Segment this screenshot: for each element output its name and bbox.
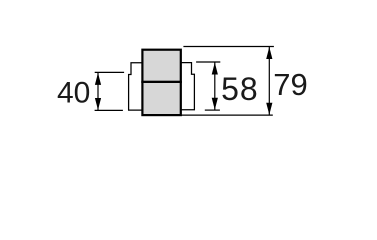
arrow up 58 xyxy=(212,63,218,75)
body upper block xyxy=(142,50,180,82)
extension line top of 58 xyxy=(196,61,220,63)
arrow up 79 xyxy=(266,47,272,59)
extension line bottom of 58 xyxy=(205,109,220,111)
svg-text:58: 58 xyxy=(221,71,259,107)
right mounting tab xyxy=(181,63,195,110)
arrow down 58 xyxy=(212,98,218,110)
svg-text:40: 40 xyxy=(57,76,90,109)
extension line top of 40 xyxy=(95,71,124,73)
extension line bottom of 79 xyxy=(182,114,273,116)
arrow down 79 xyxy=(266,103,272,115)
dimension line 40 xyxy=(97,73,99,110)
left mounting tab xyxy=(129,63,143,110)
dimension line 58 xyxy=(214,63,216,110)
extension line bottom of 40 xyxy=(95,109,123,111)
extension line top of 79 xyxy=(183,46,274,48)
arrow down 40 xyxy=(95,98,101,110)
arrow up 40 xyxy=(95,73,101,85)
svg-text:79: 79 xyxy=(273,67,307,102)
body lower block xyxy=(142,82,180,115)
dimension line 79 xyxy=(268,47,270,115)
